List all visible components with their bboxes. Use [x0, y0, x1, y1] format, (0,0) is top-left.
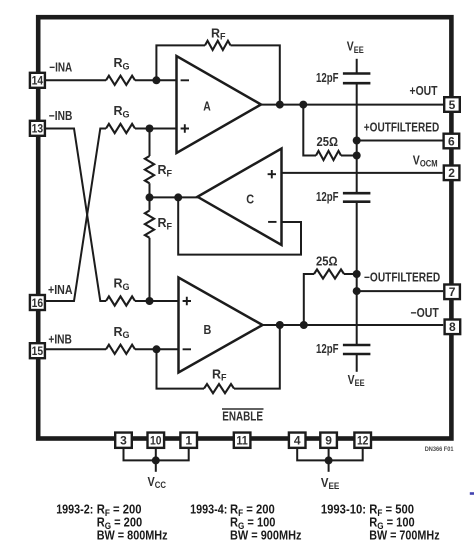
svg-text:VCC: VCC — [148, 475, 167, 490]
svg-text:+OUTFILTERED: +OUTFILTERED — [364, 120, 439, 134]
svg-text:5: 5 — [449, 98, 456, 112]
svg-text:BW = 800MHz: BW = 800MHz — [97, 528, 168, 543]
svg-text:−OUTFILTERED: −OUTFILTERED — [364, 271, 440, 285]
svg-text:16: 16 — [32, 296, 44, 310]
svg-text:+INA: +INA — [48, 283, 73, 297]
node 25ohm top junction — [353, 152, 361, 160]
op-amp A non-inverting input + — [181, 124, 189, 132]
node VCC junction — [152, 456, 160, 464]
svg-text:10: 10 — [150, 434, 162, 448]
pin 3 — [115, 433, 132, 448]
svg-text:RF: RF — [158, 216, 173, 231]
svg-text:+OUT: +OUT — [410, 84, 438, 98]
wire B+ row — [135, 300, 179, 302]
node A+ junction — [146, 125, 154, 133]
resistor RF (upper chain) — [145, 156, 154, 183]
node A output junction — [276, 101, 284, 109]
node +OUT filter branch — [299, 101, 307, 109]
svg-text:11: 11 — [236, 434, 248, 448]
svg-text:4: 4 — [294, 434, 301, 448]
op-amp B non-inverting input + — [183, 297, 191, 305]
svg-text:A: A — [203, 98, 211, 113]
svg-text:RG: RG — [114, 325, 130, 340]
wire VEE stub to C1 — [356, 59, 358, 74]
wire C3 stub to VEE — [356, 354, 358, 372]
svg-text:12pF: 12pF — [316, 342, 339, 356]
pin 1 — [180, 433, 197, 448]
pin 8 — [445, 320, 461, 335]
wire VOCM row — [282, 172, 443, 174]
svg-text:12: 12 — [357, 434, 369, 448]
node B+ junction — [146, 297, 154, 305]
pin 15 — [30, 343, 45, 358]
node 25ohm bottom junction — [353, 270, 361, 278]
svg-text:ENABLE: ENABLE — [222, 410, 263, 424]
resistor RF (B feedback) — [204, 384, 234, 393]
svg-text:+INB: +INB — [48, 333, 72, 347]
svg-text:RF: RF — [212, 367, 227, 382]
svg-text:−INB: −INB — [49, 109, 73, 123]
svg-text:2: 2 — [448, 166, 455, 180]
pin 10 — [148, 433, 165, 448]
pin 9 — [320, 433, 337, 448]
node B output junction — [276, 321, 284, 329]
resistor 25ohm (bottom) — [314, 269, 344, 278]
resistor 25ohm (top) — [316, 151, 341, 160]
svg-text:RF: RF — [158, 163, 173, 178]
wire +OUTFILTERED row — [357, 140, 443, 142]
resistor RG (B+ input) — [106, 296, 135, 305]
pin 12 — [354, 433, 371, 448]
svg-text:VEE: VEE — [347, 40, 364, 55]
capacitor 12pF (middle) — [343, 192, 371, 195]
blue tick mark — [470, 492, 474, 495]
pin 7 — [444, 285, 460, 300]
node C feedback tap — [174, 193, 182, 201]
pin 16 — [30, 295, 45, 310]
wire C output to RF midpoint — [150, 196, 200, 198]
svg-text:RG: RG — [114, 56, 130, 71]
node +OUTFILTERED junction — [353, 137, 361, 145]
svg-text:1993-4:: 1993-4: — [190, 501, 227, 516]
op-amp B — [179, 278, 263, 373]
wire VCC bus — [124, 449, 189, 461]
resistor RG (A+ input) — [106, 124, 135, 133]
svg-text:15: 15 — [32, 344, 44, 358]
resistor RF (A feedback) — [205, 41, 231, 50]
node -OUT filter branch — [300, 321, 308, 329]
svg-text:VEE: VEE — [321, 476, 340, 491]
svg-text:RG: RG — [114, 104, 130, 119]
svg-text:25Ω: 25Ω — [316, 254, 338, 268]
svg-text:BW = 700MHz: BW = 700MHz — [369, 528, 440, 543]
svg-text:13: 13 — [32, 122, 44, 136]
resistor RG (B- input) — [106, 345, 135, 354]
svg-text:12pF: 12pF — [316, 71, 339, 85]
wire +INA to A+ crossover — [46, 129, 107, 302]
pin 5 — [444, 97, 460, 112]
svg-text:6: 6 — [448, 134, 455, 148]
svg-text:8: 8 — [449, 320, 456, 334]
pin 4 — [289, 433, 306, 448]
node A- junction — [152, 76, 160, 84]
wire filter vertical upper — [356, 83, 358, 193]
pin 14 — [30, 73, 45, 88]
node B- junction — [153, 345, 161, 353]
resistor RG (A- input) — [106, 76, 135, 85]
wire 25ohm bottom branch — [304, 274, 314, 325]
wire C feedback wrap — [178, 197, 301, 254]
svg-text:VOCM: VOCM — [413, 153, 438, 168]
svg-text:VEE: VEE — [348, 373, 365, 388]
wire 25ohm top branch — [303, 105, 316, 156]
wire +OUT row — [261, 104, 443, 106]
node RF midpoint — [146, 193, 154, 201]
wire outer supply frame — [38, 17, 451, 438]
svg-text:−INA: −INA — [49, 61, 72, 75]
node VEE junction — [325, 456, 333, 464]
pin 2 — [444, 166, 460, 181]
op-amp B inverting input - — [183, 348, 191, 350]
svg-text:BW = 900MHz: BW = 900MHz — [230, 528, 302, 543]
pin 6 — [444, 134, 460, 149]
capacitor 12pF (top) — [343, 72, 371, 75]
wire VEE bus — [297, 449, 363, 461]
svg-text:DN366 F01: DN366 F01 — [425, 446, 454, 453]
wire +INB row — [46, 348, 107, 350]
pin 11 — [234, 433, 251, 448]
op-amp C — [198, 149, 282, 246]
svg-text:RF: RF — [211, 26, 226, 41]
op-amp A — [177, 56, 262, 153]
wire -INA row — [46, 79, 107, 81]
svg-text:B: B — [204, 322, 212, 337]
svg-text:1993-10:: 1993-10: — [321, 501, 366, 516]
wire filter vertical lower — [356, 202, 358, 345]
svg-text:1: 1 — [185, 434, 192, 448]
svg-text:7: 7 — [449, 285, 456, 299]
op-amp C inverting input - — [268, 221, 276, 223]
svg-text:14: 14 — [32, 74, 44, 88]
wire A feedback loop — [156, 45, 205, 80]
resistor RF (lower chain) — [145, 211, 154, 238]
wire -OUT row — [263, 324, 444, 326]
svg-text:9: 9 — [325, 434, 332, 448]
wire -OUTFILTERED row — [357, 290, 444, 292]
svg-text:12pF: 12pF — [316, 190, 339, 204]
pin 13 — [30, 121, 45, 136]
wire B feedback loop — [157, 349, 205, 388]
svg-text:25Ω: 25Ω — [317, 135, 339, 149]
svg-text:RG: RG — [114, 277, 130, 292]
capacitor 12pF (bottom) — [343, 344, 371, 347]
op-amp C non-inverting input + — [268, 170, 276, 178]
node -OUTFILTERED junction — [353, 287, 361, 295]
svg-text:3: 3 — [120, 434, 127, 448]
svg-text:−OUT: −OUT — [411, 306, 440, 320]
svg-text:C: C — [246, 191, 254, 206]
wire RF chain vertical — [149, 129, 151, 157]
svg-text:1993-2:: 1993-2: — [56, 501, 93, 516]
wire A+ row — [135, 128, 177, 130]
wire -INB to B+ crossover — [46, 129, 107, 302]
op-amp A inverting input - — [181, 79, 189, 81]
